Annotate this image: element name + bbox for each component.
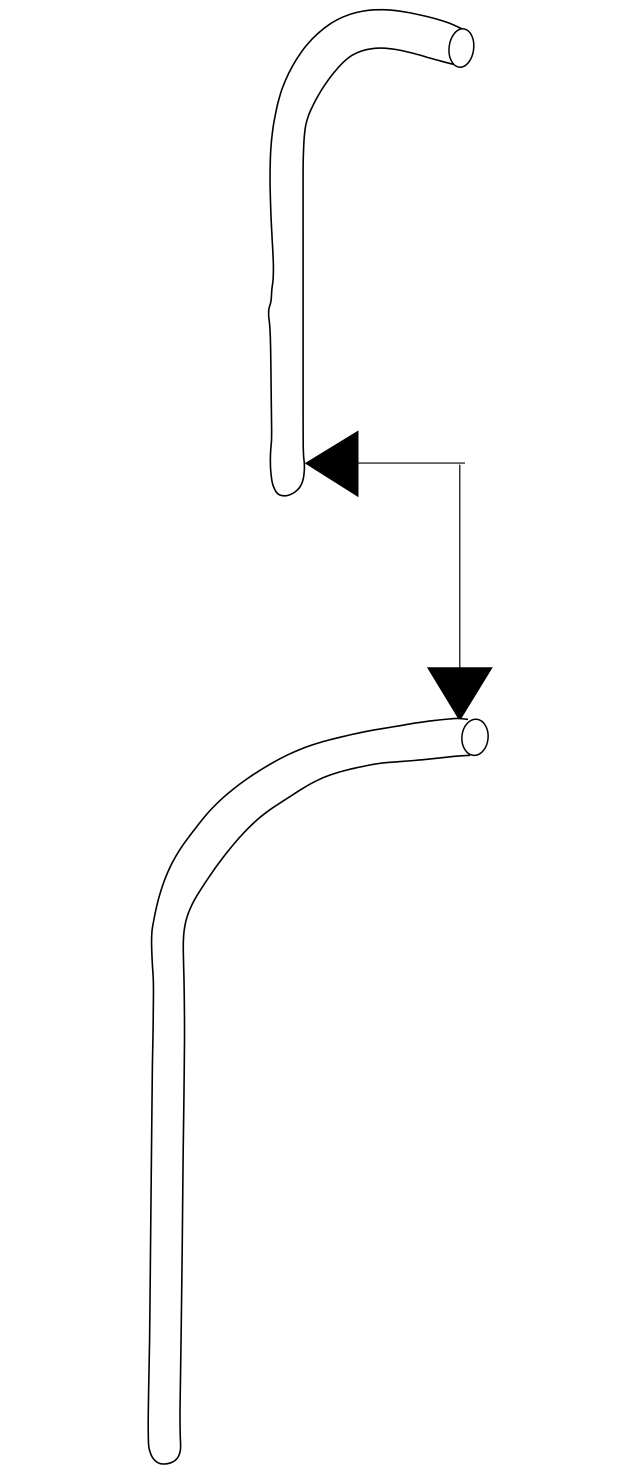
- upper tube open end ellipse: [447, 27, 476, 68]
- horizontal leader line: [357, 462, 465, 464]
- lower tube open end ellipse: [460, 718, 489, 756]
- lower bent tube body: [148, 718, 470, 1464]
- vertical leader line: [459, 465, 461, 668]
- left-pointing solid arrowhead: [306, 431, 358, 496]
- down-pointing solid arrowhead: [428, 668, 492, 721]
- upper bent tube body: [269, 10, 462, 496]
